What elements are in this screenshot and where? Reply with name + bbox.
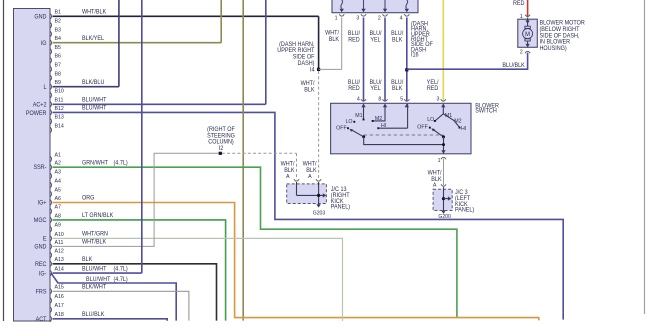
svg-text:BLU/WHT: BLU/WHT — [82, 105, 107, 111]
switch contact LO left — [353, 121, 355, 123]
svg-text:SIDE OF DASH,: SIDE OF DASH, — [540, 33, 580, 39]
svg-text:YEL: YEL — [370, 37, 380, 43]
pin A1 terminal — [50, 156, 52, 162]
in-line connector I4 — [317, 68, 320, 71]
switch HI to pin5 link — [378, 127, 407, 129]
top bar pin 1 arrow — [340, 9, 344, 12]
svg-text:WHT/BLK: WHT/BLK — [82, 239, 106, 245]
svg-text:WHT/BLK: WHT/BLK — [82, 9, 106, 15]
pin A9 terminal — [50, 226, 52, 232]
motor internal arrow top — [525, 20, 529, 23]
svg-text:RED: RED — [513, 1, 524, 7]
svg-text:A10: A10 — [54, 232, 63, 238]
switch pin 1 terminal — [441, 157, 446, 159]
J/C 13 right pin lead to ground — [318, 182, 320, 206]
switch pin8 internal lead — [373, 104, 385, 121]
svg-text:I2: I2 — [219, 146, 224, 152]
svg-text:GND: GND — [34, 14, 46, 20]
svg-text:A3: A3 — [54, 169, 60, 175]
switch contact OFF left — [347, 127, 349, 129]
J/C 13 left pin terminal — [294, 179, 299, 181]
svg-text:ORG: ORG — [82, 196, 95, 202]
svg-text:RED: RED — [427, 86, 438, 92]
wire BLU/RED vertical bar pin3 to switch pin4 — [363, 18, 365, 102]
junction block J/C 13 — [287, 184, 327, 204]
svg-text:BLU/WHT: BLU/WHT — [82, 266, 107, 272]
pin B4 terminal — [50, 40, 52, 46]
svg-text:M1: M1 — [445, 113, 452, 119]
svg-text:A15: A15 — [54, 285, 63, 291]
svg-text:B3: B3 — [54, 27, 60, 33]
svg-text:PANEL): PANEL) — [331, 204, 350, 210]
svg-text:BLK/YEL: BLK/YEL — [82, 36, 104, 42]
switch pin4 internal lead — [363, 104, 365, 120]
wire A14 BLU/WHT horizontal — [53, 272, 142, 274]
pin B8 terminal — [50, 75, 52, 81]
wire WHT/BLK vertical up to top connector pin 1 — [341, 18, 343, 70]
svg-text:B5: B5 — [54, 45, 60, 51]
svg-text:B7: B7 — [54, 62, 60, 68]
switch pin arrow — [441, 104, 445, 107]
svg-text:WHT/: WHT/ — [303, 161, 317, 167]
svg-text:GRN/WHT: GRN/WHT — [82, 160, 108, 166]
svg-text:B1: B1 — [54, 10, 60, 16]
svg-text:BLK/BLU: BLK/BLU — [82, 80, 104, 86]
switch wiper pivot right — [442, 135, 445, 138]
svg-text:A14: A14 — [54, 266, 63, 272]
wire A8 LT GRN/BLK run — [53, 220, 226, 321]
J/C 3 bus arrow — [448, 196, 451, 200]
svg-text:A6: A6 — [54, 196, 60, 202]
svg-text:BLU/: BLU/ — [369, 31, 381, 37]
svg-text:B13: B13 — [54, 114, 63, 120]
connector block: A/C amplifier left connector — [14, 9, 51, 322]
svg-text:IN BLOWER: IN BLOWER — [540, 40, 571, 46]
svg-text:SWITCH: SWITCH — [475, 109, 496, 115]
motor internal lead top — [527, 18, 529, 27]
motor pin 1 terminal — [525, 15, 530, 17]
svg-text:I16: I16 — [411, 52, 419, 58]
ground arrow G200 — [441, 211, 445, 214]
pin A16 terminal — [50, 297, 52, 303]
svg-text:G203: G203 — [313, 210, 325, 216]
svg-text:OFF: OFF — [417, 124, 428, 130]
pin B9 terminal — [50, 84, 52, 90]
blower switch box — [331, 103, 471, 154]
svg-text:WHT/: WHT/ — [281, 161, 295, 167]
svg-text:5: 5 — [400, 96, 403, 102]
pin A18 terminal — [50, 316, 52, 322]
J/C 13 junction — [317, 194, 320, 197]
wire WHT/BLK dashed I4 down to J/C 13 — [318, 71, 320, 180]
svg-text:B4: B4 — [54, 36, 60, 42]
svg-text:B12: B12 — [54, 106, 63, 112]
switch contact HI left — [377, 127, 379, 129]
wire YEL/RED vertical top edge to switch pin3 — [442, 0, 444, 102]
wire B11 BLU/WHT vertical up to top edge — [265, 0, 267, 104]
switch pin terminal — [441, 99, 446, 101]
svg-text:BLU/WHT: BLU/WHT — [82, 97, 107, 103]
switch contact pin4 — [363, 119, 365, 121]
svg-text:LT GRN/BLK: LT GRN/BLK — [82, 213, 113, 219]
svg-text:IG: IG — [41, 41, 47, 47]
switch pin terminal — [361, 99, 366, 101]
pin A12 terminal — [50, 252, 52, 258]
switch pin5 internal lead — [407, 104, 409, 128]
svg-text:(4.7L): (4.7L) — [114, 277, 128, 283]
J/C 13 bus arrow — [323, 193, 326, 197]
wire WHT/BLK dashed I2 to J/C 13 — [222, 152, 297, 154]
svg-text:BLU/: BLU/ — [348, 80, 360, 86]
svg-text:POWER: POWER — [26, 111, 47, 117]
svg-text:YEL/: YEL/ — [427, 80, 439, 86]
svg-text:BLK: BLK — [392, 86, 402, 92]
pin B14 terminal — [50, 127, 52, 133]
switch junction common — [442, 143, 445, 146]
svg-text:B6: B6 — [54, 54, 60, 60]
svg-text:A17: A17 — [54, 303, 63, 309]
J/C 3 internal bus — [444, 198, 450, 200]
svg-text:A: A — [286, 174, 290, 180]
pin A4 terminal — [50, 182, 52, 188]
svg-text:SIDE OF: SIDE OF — [293, 54, 315, 60]
svg-text:A4: A4 — [54, 178, 60, 184]
svg-text:(4.7L): (4.7L) — [114, 160, 128, 166]
pin B10 terminal — [50, 92, 52, 98]
svg-text:SSR-: SSR- — [33, 165, 46, 171]
svg-text:BLK: BLK — [82, 257, 92, 263]
motor pin 2 terminal — [525, 51, 530, 53]
pin B7 terminal — [50, 66, 52, 72]
switch pin arrow — [361, 104, 365, 107]
in-line connector I16 — [405, 68, 408, 71]
svg-text:BLK: BLK — [304, 87, 314, 93]
svg-text:REC: REC — [35, 262, 46, 268]
wire B9 BLK/BLU vertical up to top edge — [118, 0, 120, 87]
svg-text:HI: HI — [461, 126, 467, 132]
svg-text:A5: A5 — [54, 187, 60, 193]
svg-text:2: 2 — [378, 15, 381, 21]
pin B6 terminal — [50, 57, 52, 63]
svg-text:1: 1 — [335, 15, 338, 21]
svg-text:A13: A13 — [54, 257, 63, 263]
wire BLU/BLK vertical bar pin4 to switch pin5 — [406, 18, 408, 102]
svg-text:E: E — [43, 236, 47, 242]
svg-text:RED: RED — [348, 86, 359, 92]
svg-text:A9: A9 — [54, 222, 60, 228]
wire WHT/BLK dashed down to J/C 13 pin A — [296, 153, 298, 179]
wire WHT/BLK jog I4 to pin 1 wire — [319, 68, 342, 70]
svg-text:HOUSING): HOUSING) — [540, 46, 567, 52]
svg-text:A: A — [308, 174, 312, 180]
motor symbol M circle — [523, 29, 533, 39]
svg-text:A12: A12 — [54, 248, 63, 254]
pin A5 terminal — [50, 191, 52, 197]
svg-text:B2: B2 — [54, 18, 60, 24]
switch common lead to pin1 — [443, 137, 445, 154]
wire A2 GRN/WHT run — [53, 167, 457, 318]
svg-text:YEL: YEL — [370, 86, 380, 92]
wire A11 WHT/BLK up to I2 — [53, 153, 220, 246]
svg-text:L: L — [43, 85, 46, 91]
svg-text:WHT/: WHT/ — [301, 81, 315, 87]
motor terminal block top — [525, 26, 530, 28]
pin A7 terminal — [50, 208, 52, 214]
svg-text:BLU/WHT: BLU/WHT — [86, 277, 111, 283]
svg-text:RED: RED — [348, 37, 359, 43]
svg-text:A: A — [433, 182, 437, 188]
svg-text:B11: B11 — [54, 98, 63, 104]
svg-text:2: 2 — [520, 49, 523, 55]
top bar pin 1 lead — [341, 0, 343, 9]
top bar pin 2 terminal — [382, 14, 387, 16]
pin A10 terminal — [50, 235, 52, 241]
svg-text:ACT: ACT — [36, 317, 47, 323]
J/C 3 pin lead to ground — [443, 187, 445, 211]
switch pin terminal — [382, 99, 387, 101]
svg-text:BLU/BLK: BLU/BLK — [82, 312, 105, 318]
wire B11 BLU/WHT horizontal — [53, 103, 266, 105]
switch wiper left — [351, 129, 364, 136]
svg-text:(4.7L): (4.7L) — [114, 266, 128, 272]
svg-text:BLU/BLK: BLU/BLK — [502, 63, 525, 69]
svg-text:B10: B10 — [54, 88, 63, 94]
J/C 13 right pin terminal — [316, 179, 321, 181]
svg-text:(DASH HARN,: (DASH HARN, — [279, 42, 315, 48]
svg-text:4: 4 — [400, 15, 403, 21]
svg-text:BLU/: BLU/ — [391, 80, 403, 86]
switch pin1 arrow — [441, 150, 445, 153]
pin B13 terminal — [50, 118, 52, 124]
svg-text:BLK: BLK — [284, 168, 294, 174]
connector bar: dash harness connector (top, cut off) — [332, 0, 418, 13]
page right border line — [644, 0, 646, 314]
svg-text:A8: A8 — [54, 213, 60, 219]
svg-text:BLK: BLK — [329, 37, 339, 43]
svg-text:3: 3 — [437, 96, 440, 102]
pin A17 terminal — [50, 307, 52, 313]
svg-text:4: 4 — [357, 96, 360, 102]
wire BLU/YEL vertical bar pin2 to switch pin8 — [384, 18, 386, 102]
J/C 13 internal bus — [297, 194, 324, 196]
pin A13 terminal — [50, 261, 52, 267]
wire A15 BLK/WHT run — [53, 291, 189, 320]
svg-text:WHT/GRN: WHT/GRN — [82, 231, 108, 237]
switch wiper pivot left — [362, 135, 365, 138]
svg-text:FRS: FRS — [36, 289, 47, 295]
svg-text:WHT/: WHT/ — [428, 170, 442, 176]
svg-text:IG-: IG- — [39, 271, 47, 277]
svg-text:M: M — [525, 31, 530, 38]
switch contact M2 left — [372, 120, 374, 122]
svg-text:A2: A2 — [54, 160, 60, 166]
motor internal lead bottom — [527, 41, 529, 47]
switch contact LO right — [434, 120, 436, 122]
pin B12 terminal — [50, 109, 52, 115]
pin B3 terminal — [50, 31, 52, 37]
pin B5 terminal — [50, 48, 52, 54]
page left border line — [3, 0, 5, 321]
motor internal arrow bottom — [525, 44, 529, 47]
top bar pin 3 terminal — [361, 14, 366, 16]
svg-text:B14: B14 — [54, 123, 63, 129]
svg-text:A7: A7 — [54, 204, 60, 210]
top bar pin 4 terminal — [404, 14, 409, 16]
J/C 3 pin A terminal — [441, 184, 446, 186]
svg-text:B8: B8 — [54, 71, 60, 77]
svg-text:BLK: BLK — [306, 168, 316, 174]
wire BLK/YEL pass-through vertical — [242, 0, 244, 321]
switch pin arrow — [405, 104, 409, 107]
svg-text:A18: A18 — [54, 312, 63, 318]
svg-text:BLU/: BLU/ — [348, 31, 360, 37]
svg-text:IG+: IG+ — [38, 201, 48, 207]
svg-text:A1: A1 — [54, 152, 60, 158]
svg-text:DASH): DASH) — [298, 61, 315, 67]
pin A6 terminal — [50, 199, 52, 205]
pin B2 terminal — [50, 22, 52, 28]
svg-text:MGC: MGC — [34, 218, 47, 224]
wire B4 BLK/YEL horizontal — [53, 42, 222, 44]
wire BLU/WHT branch from A14 down — [51, 273, 176, 321]
svg-text:M1: M1 — [355, 113, 362, 119]
top bar pin 1 terminal — [339, 14, 344, 16]
top bar pin 2 lead — [384, 0, 386, 9]
pin A15 terminal — [50, 288, 52, 294]
wire A14 BLU/WHT vertical up to top edge — [141, 0, 143, 273]
switch pin3 internal lead — [442, 104, 444, 114]
J/C 3 junction — [442, 197, 445, 200]
svg-text:LO: LO — [427, 117, 435, 123]
svg-text:BLK: BLK — [392, 37, 402, 43]
svg-text:A11: A11 — [54, 240, 63, 246]
ground arrow G203 — [316, 204, 320, 207]
in-line connector I2 — [219, 152, 222, 155]
wire A13 BLK run — [53, 264, 217, 321]
top bar pin 2 arrow — [383, 9, 387, 12]
top bar pin 4 arrow — [405, 9, 409, 12]
switch mechanical link dashed — [364, 134, 444, 136]
switch left pivot to common — [364, 137, 444, 145]
pin A8 terminal — [50, 217, 52, 223]
switch contact OFF right — [429, 127, 431, 129]
wire A18 BLU/BLK run — [53, 319, 168, 321]
switch wiper right — [432, 129, 443, 137]
switch pin terminal — [404, 99, 409, 101]
svg-text:GND: GND — [34, 244, 46, 250]
svg-text:3: 3 — [356, 15, 359, 21]
svg-text:OFF: OFF — [336, 125, 347, 131]
wire B4 BLK/YEL vertical up to top edge — [220, 0, 222, 43]
junction block J/C 3 — [433, 189, 452, 210]
svg-text:BLOWER MOTOR: BLOWER MOTOR — [540, 20, 585, 26]
svg-text:PANEL): PANEL) — [455, 207, 474, 213]
wire B12 BLU/WHT long run right and down — [53, 112, 564, 319]
pin B1 terminal — [50, 13, 52, 19]
svg-text:WHT/: WHT/ — [325, 30, 339, 36]
pin A3 terminal — [50, 173, 52, 179]
svg-text:1: 1 — [438, 158, 441, 164]
switch pin arrow — [383, 104, 387, 107]
switch contact HI right — [459, 127, 461, 129]
svg-text:M2: M2 — [454, 118, 461, 124]
pin A14 terminal — [50, 270, 52, 276]
pin A2 terminal — [50, 164, 52, 170]
wire A10 WHT/GRN run — [53, 238, 343, 321]
svg-text:I4: I4 — [310, 67, 315, 73]
wire BLU/BLK motor pin2 to I16 — [407, 53, 528, 70]
top bar pin 4 lead — [406, 0, 408, 9]
J/C 13 left pin lead — [296, 182, 298, 195]
svg-text:M2: M2 — [375, 116, 382, 122]
svg-text:G200: G200 — [438, 214, 450, 220]
motor terminal block bottom — [525, 39, 530, 41]
wire WHT/BLK switch to J/C 3 — [443, 159, 445, 186]
svg-text:UPPER RIGHT: UPPER RIGHT — [277, 48, 315, 54]
wire RED vertical to motor pin1 — [527, 0, 529, 17]
svg-text:(BELOW RIGHT: (BELOW RIGHT — [540, 27, 580, 33]
blower motor M1 box — [518, 19, 538, 47]
top bar pin 3 arrow — [361, 9, 365, 12]
svg-text:A16: A16 — [54, 294, 63, 300]
svg-text:BLU/: BLU/ — [369, 80, 381, 86]
svg-text:AC+2: AC+2 — [33, 102, 47, 108]
svg-text:B9: B9 — [54, 80, 60, 86]
svg-text:LO: LO — [345, 119, 353, 125]
wire A6 ORG run — [53, 203, 539, 321]
svg-text:8: 8 — [378, 96, 381, 102]
top bar pin 3 lead — [363, 0, 365, 9]
wire B9 BLK/BLU horizontal — [53, 86, 119, 88]
svg-text:BLK/WHT: BLK/WHT — [82, 284, 107, 290]
switch contact strip right — [435, 114, 460, 128]
pin B11 terminal — [50, 101, 52, 107]
pin A11 terminal — [50, 243, 52, 249]
wire B1 WHT/BLK vertical down to I4 — [318, 16, 320, 68]
svg-text:BLU/: BLU/ — [391, 31, 403, 37]
wire B1 WHT/BLK horizontal — [53, 15, 319, 17]
